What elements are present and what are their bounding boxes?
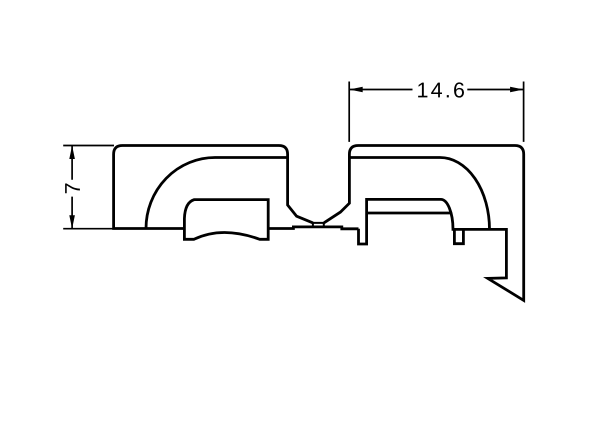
dimension line 7 [71, 146, 73, 229]
right block outer outline with shelf and hook [324, 146, 524, 301]
arrow right [510, 87, 523, 93]
nub at V-notch bottom [313, 223, 324, 227]
left block interior arc and inner top line [146, 158, 288, 229]
dimension line 14.6 [349, 89, 523, 91]
arrow down [69, 215, 75, 229]
left block outer outline [114, 146, 313, 229]
middle bottom ledge with steps [268, 227, 358, 229]
tab under left block [184, 200, 268, 240]
dimension text 14.6 [418, 83, 427, 98]
arrow left [349, 87, 363, 93]
dimension text 7 [65, 184, 80, 194]
shelf bottom line [366, 212, 451, 215]
extension lines for 14.6 [349, 82, 523, 142]
right block inner top line and interior arc [349, 158, 489, 230]
right small leg under bottom line [454, 229, 463, 243]
arrow up [69, 146, 75, 160]
extension lines for 7 [63, 146, 114, 229]
